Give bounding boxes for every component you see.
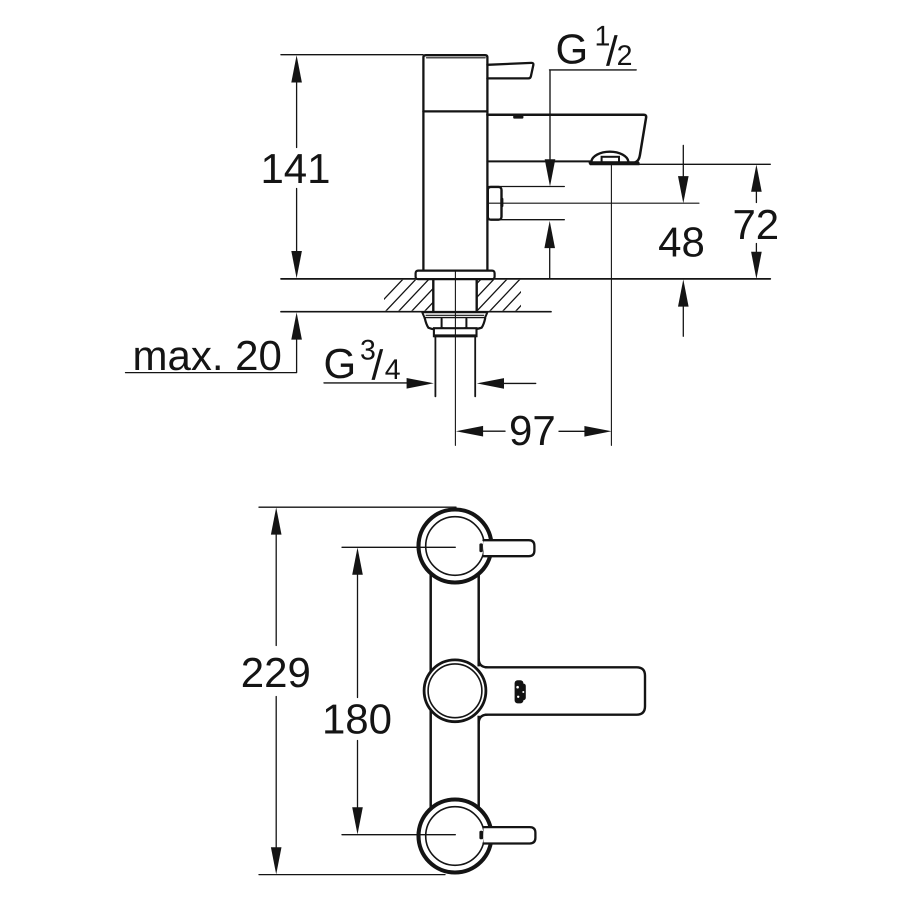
middle circle inner (428, 664, 482, 718)
dimension 97 (456, 426, 612, 437)
svg-text:max. 20: max. 20 (133, 332, 282, 379)
bottom lever (front view) (484, 827, 536, 843)
cap bottom joint line (423, 110, 487, 112)
aerator face small rect (602, 157, 619, 163)
logo mark on spout (513, 115, 523, 119)
svg-text:180: 180 (322, 696, 392, 743)
svg-text:97: 97 (509, 407, 556, 454)
fitting center line (489, 202, 699, 204)
top circle outer (419, 510, 492, 583)
washer under deck (422, 312, 487, 318)
base flange (416, 271, 495, 280)
fitting nub (500, 198, 503, 207)
side fitting G1/2 outlet (488, 187, 502, 220)
dimension 141 (291, 55, 302, 278)
dimension 229 extension lines (259, 507, 456, 874)
spout bottom line (487, 160, 591, 162)
svg-text:72: 72 (732, 201, 779, 248)
svg-text:G: G (556, 26, 589, 73)
spout (front view) outline (486, 667, 646, 714)
spout outlet extension line (610, 165, 612, 445)
aerator base bar (thick) (589, 161, 640, 165)
faucet body outline (423, 55, 487, 271)
dimension 48 (678, 145, 689, 336)
fitting extension lines (489, 187, 564, 220)
middle circle outer (424, 660, 486, 722)
label G 3/4 leader with arrows (324, 378, 536, 389)
aerator dome (591, 152, 628, 162)
G 1/2 lower arrow (544, 221, 555, 279)
locking hex nut (425, 318, 485, 329)
body column lines (431, 548, 479, 834)
center line of faucet (454, 270, 456, 445)
svg-text:4: 4 (385, 354, 401, 386)
cap chamfer line (427, 57, 486, 59)
top circle inner (426, 517, 485, 576)
dimension 180 (352, 548, 363, 835)
label G 1/2 leader (545, 70, 637, 187)
lever handle (side view) (487, 63, 533, 79)
extension line top (141 upper reference) (281, 54, 423, 56)
dimension 180 extension lines (342, 547, 455, 834)
GROHE logo on spout (515, 680, 526, 703)
dimension 229 (271, 507, 282, 874)
top lever (front view) (484, 540, 535, 556)
threaded tailpiece tube (435, 337, 475, 396)
svg-text:G: G (324, 340, 357, 387)
svg-text:48: 48 (658, 219, 705, 266)
deck bottom line (281, 311, 551, 313)
bottom lever hidden edge tick (479, 831, 483, 840)
top lever hidden edge tick (479, 543, 483, 552)
deck top line (281, 278, 770, 280)
svg-text:/: / (372, 341, 384, 388)
spout-column fillets (479, 659, 487, 723)
shank through deck (433, 280, 476, 311)
svg-text:2: 2 (617, 40, 633, 72)
bottom circle inner (426, 807, 485, 866)
dimension 72 with extension line (633, 164, 770, 279)
spout top and slanted right edge (487, 115, 646, 164)
svg-text:229: 229 (241, 649, 311, 696)
spout (front view) fill (468, 666, 646, 715)
collar below nut (434, 328, 477, 336)
dimension max. 20 (126, 312, 302, 372)
svg-text:141: 141 (260, 145, 330, 192)
bottom circle outer (419, 800, 492, 873)
